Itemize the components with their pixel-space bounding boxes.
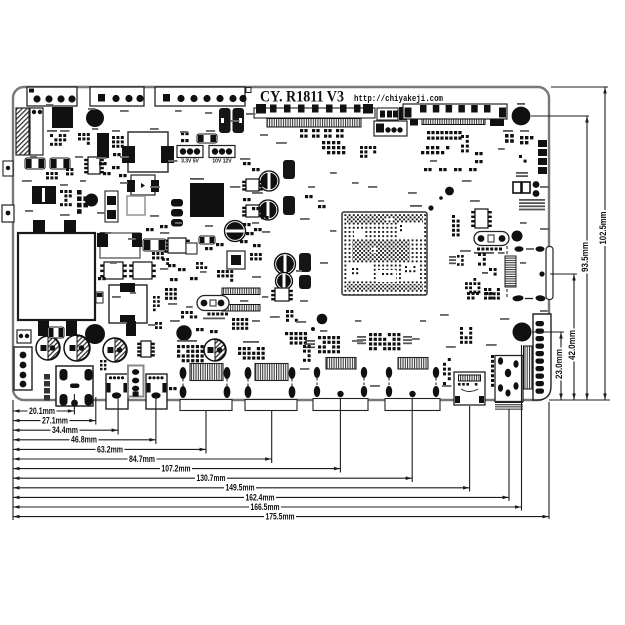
pad field A rows: [322, 141, 325, 144]
pad cluster 240s: [243, 162, 246, 165]
pad column 461,135: [461, 135, 464, 138]
connector HDMI2 HDMI port: [398, 358, 428, 370]
dimension 102.5mm vertical: [604, 87, 606, 400]
pad cluster 494,305: [467, 292, 470, 295]
dimension 23.0mm vertical: [560, 332, 562, 400]
dimension 42.0mm vertical: [573, 274, 575, 400]
capacitor block below P4: [100, 232, 110, 246]
mounting hole P6 left: [176, 325, 191, 340]
dimension 162.4mm horizontal: [13, 496, 509, 498]
dimension 175.5mm horizontal: [13, 516, 549, 518]
svg-text:63.2mm: 63.2mm: [97, 444, 123, 455]
ic U3 main power black: [190, 183, 224, 217]
ic U15 small: [186, 243, 197, 254]
connector CN1 4-pin with shell: [374, 121, 407, 136]
extension line 27.1mm: [95, 397, 97, 425]
extension line board right edge down: [548, 402, 550, 519]
pads right of mini jack 2: [169, 387, 172, 390]
pad cluster below U9: [217, 270, 220, 273]
pad column 443,358: [448, 358, 451, 361]
optocoupler U5a: [104, 262, 123, 279]
pad column 491,355: [491, 355, 494, 358]
pad cluster left of crystal: [165, 288, 168, 291]
resistor strip RN1: [222, 288, 260, 295]
header cluster 285: [285, 332, 288, 335]
transformer T2 white box with tabs: [109, 285, 147, 323]
connector tab left edge: [2, 205, 14, 222]
connector CN4 header box: [403, 104, 507, 119]
connector CN3 small 3-pad: [377, 108, 398, 120]
capacitor C1: [219, 108, 231, 133]
via hole right: [512, 231, 523, 242]
svg-text:10V 12V: 10V 12V: [212, 159, 232, 165]
box outline below diode: [127, 196, 145, 215]
pad cross cluster: [473, 278, 476, 281]
pad cluster qfn right: [250, 253, 253, 256]
extension line 46.8mm: [155, 396, 157, 444]
inductor L1 round: [225, 221, 246, 242]
capacitor tab C: [126, 321, 136, 336]
ic U10 SOIC: [88, 157, 100, 174]
capacitor tab A: [38, 321, 49, 336]
connector small 2-pin: [17, 330, 31, 343]
pad block right of comb: [490, 119, 504, 126]
svg-text:42.0mm: 42.0mm: [567, 330, 578, 360]
pads right edge 517,155: [519, 155, 522, 158]
pad pairs column 478: [478, 253, 481, 256]
mounting hole P5 center-bottom: [317, 314, 328, 325]
capacitor column 4 black: [538, 140, 547, 147]
crystal Y1 oscillator: [197, 296, 229, 311]
pad cluster under P3: [60, 190, 63, 193]
svg-text:107.2mm: 107.2mm: [162, 464, 191, 475]
leader 23mm from mounting hole P2: [532, 331, 564, 333]
ic U4 QFN: [168, 238, 186, 253]
inductor L2: [259, 171, 279, 191]
pad column left edge 100,360: [100, 360, 103, 363]
jumper JP2 10V/12V: [209, 146, 235, 158]
module box A with corner tabs: [100, 233, 140, 258]
resistor R9: [199, 236, 215, 244]
capacitor tab B: [66, 321, 77, 336]
capacitor C17: [48, 327, 64, 338]
pad column 303,345: [303, 345, 306, 348]
pad cluster 360,146: [360, 146, 363, 149]
svg-text:http://chiyakeji.com: http://chiyakeji.com: [354, 94, 443, 104]
electrolytic capacitor E4: [204, 339, 226, 361]
connector USB2 USB port: [255, 364, 288, 381]
electrolytic capacitor E3: [103, 338, 127, 362]
electrolytic capacitor E1: [36, 336, 60, 360]
pads 475,150: [475, 152, 478, 155]
pads left 104,277: [98, 277, 101, 280]
pad block left of comb: [410, 119, 418, 126]
ic U6 BGA main controller: [342, 212, 427, 295]
dimension 93.5mm vertical: [586, 116, 588, 400]
connector 4-pin vertical: [128, 366, 144, 397]
connector 24V input: [14, 347, 32, 390]
ic U7 SOIC left of inductors: [246, 179, 259, 191]
silk 24V label vertical: [44, 374, 50, 380]
capacitor C13 black: [299, 275, 311, 289]
connector power out T3: [56, 366, 93, 406]
extension line 20.1mm: [73, 394, 75, 415]
extension line board left edge down: [12, 400, 14, 520]
pad column left of P4: [77, 190, 82, 195]
diode pack D2: [131, 175, 155, 195]
silk text block LVDS: [519, 199, 545, 201]
extension line 162.4mm: [508, 409, 510, 501]
connector CN4 contact comb: [422, 119, 485, 125]
transformer T1 black block: [52, 107, 73, 128]
pads sparse mid: [305, 195, 308, 198]
inductor L3: [258, 200, 278, 220]
resistor R-pack left 1: [25, 158, 45, 169]
extension line board bottom edge right: [549, 399, 610, 401]
leader from mounting hole P1: [531, 115, 589, 117]
dimension 84.7mm horizontal: [13, 458, 272, 460]
header cluster 238: [238, 347, 241, 350]
connector P9 DC jack: [495, 356, 523, 402]
capacitor C11 black: [283, 196, 295, 215]
mounting hole P7: [85, 324, 105, 344]
pad field under CN2 comb: [300, 129, 303, 132]
ic U14 SOIC8 vertical: [141, 341, 151, 357]
connector J1 top-left 4-pin: [27, 87, 77, 106]
pads near x100 y160: [99, 162, 102, 165]
svg-text:175.5mm: 175.5mm: [266, 512, 295, 523]
pad row y168: [424, 168, 427, 171]
hatched rework area: [16, 108, 29, 155]
electrolytic capacitor E2: [64, 335, 90, 361]
pad cluster under P1: [505, 134, 509, 138]
pad cluster C-column: [457, 255, 460, 258]
silkscreen reference designator specks: [46, 104, 53, 106]
resistor R-pack left 2: [50, 158, 70, 169]
diode D1 dark block: [32, 186, 56, 204]
connector CN6 pin header right edge: [533, 314, 551, 400]
ic U11 SOIC: [275, 288, 289, 301]
via hole near BGA: [445, 187, 454, 196]
dimension 130.7mm horizontal: [13, 477, 412, 479]
connector left tall box: [30, 108, 43, 155]
resistor R8: [143, 239, 166, 251]
extension line 63.2mm: [205, 411, 207, 454]
pad column right of BGA: [452, 215, 455, 218]
connector CN2 contact comb: [267, 119, 361, 128]
pad cluster left column: [50, 134, 53, 137]
pad column 460,327: [460, 327, 463, 330]
dimension 46.8mm horizontal: [13, 439, 156, 441]
checkered pad grid: [484, 288, 487, 291]
header cluster PWR: [177, 345, 180, 348]
component dark block right of CN3: [399, 107, 407, 120]
dimension 27.1mm horizontal: [13, 420, 96, 422]
dimension 20.1mm horizontal: [13, 410, 74, 412]
extension line 107.2mm: [339, 398, 341, 473]
extension line board top edge right: [551, 86, 608, 88]
connector mini-HDMI: [454, 372, 485, 405]
pad field B rows: [427, 131, 430, 134]
mounting hole P3 top-left: [86, 109, 104, 127]
PCB board outline: [13, 87, 549, 400]
connector J2 top 4-pin: [90, 87, 144, 106]
extension line 166.5mm: [521, 345, 523, 511]
pad strip vertical comb: [524, 346, 533, 389]
connector mini jack 2: [146, 374, 167, 409]
capacitor C8 small: [96, 292, 103, 303]
capacitor C12 black: [299, 253, 311, 272]
svg-text:130.7mm: 130.7mm: [197, 473, 226, 484]
svg-text:CY. R1811 V3: CY. R1811 V3: [260, 89, 344, 106]
connector mini jack 1: [106, 374, 128, 409]
connector P9 shield ruffle: [495, 402, 523, 404]
header cluster 318: [318, 336, 321, 339]
pad cluster center-left: [152, 252, 155, 255]
resistor strip RN2: [222, 305, 260, 312]
component dual-cap right of P4: [105, 191, 118, 222]
connector CN5 LVDS output right edge: [546, 247, 553, 300]
dimension 166.5mm horizontal: [13, 506, 522, 508]
svg-text:84.7mm: 84.7mm: [129, 454, 155, 465]
dimension 63.2mm horizontal: [13, 448, 206, 450]
connector J3 top 6-pin: [155, 87, 245, 106]
svg-text:102.5mm: 102.5mm: [598, 212, 609, 245]
backlight area big square: [18, 233, 95, 320]
extension line 34.4mm: [117, 396, 119, 435]
extension line 130.7mm: [411, 398, 413, 482]
inductor L5: [276, 273, 293, 290]
jumper JP1 3.3V/5V: [177, 146, 203, 158]
ic U8 SOIC: [246, 205, 259, 217]
connector USB1 USB port: [190, 364, 223, 381]
svg-text:46.8mm: 46.8mm: [71, 435, 97, 446]
pad cluster 232,318: [232, 318, 235, 321]
component dual pads right top: [513, 182, 521, 193]
pad pair com: [489, 268, 492, 271]
dimension 107.2mm horizontal: [13, 468, 340, 470]
mounting hole P2 bottom-right: [513, 323, 532, 342]
regulator block dark: [97, 133, 109, 158]
header cluster 369: [369, 333, 372, 336]
dimension 34.4mm horizontal: [13, 429, 118, 431]
dimension 149.5mm horizontal: [13, 487, 470, 489]
capacitor C2: [233, 108, 245, 133]
module U2 DC-DC with side tabs: [128, 132, 168, 172]
extension line 84.7mm: [271, 411, 273, 463]
svg-text:3.3V 5V: 3.3V 5V: [181, 159, 199, 165]
mounting hole P4 left-center: [85, 194, 98, 207]
ic U9 QFN with black core: [227, 251, 245, 269]
optocoupler U5b: [133, 262, 152, 279]
crystal Y2 oscillator: [474, 232, 509, 246]
ic U13 SOIC with pins: [475, 209, 488, 228]
pads center-left enrich: [196, 262, 199, 265]
resistor R5: [197, 134, 217, 143]
connector HDMI1 HDMI port: [326, 358, 356, 370]
svg-text:93.5mm: 93.5mm: [580, 242, 591, 272]
mounting hole P1 top-right: [512, 107, 531, 126]
connector CN2 40-pin header bar: [254, 108, 375, 118]
pads under crystal: [207, 313, 210, 316]
pad cluster mid-left: [46, 172, 49, 175]
inductor L4: [275, 254, 296, 275]
pads under crystal Y2: [477, 248, 480, 251]
pad cluster 286,310: [286, 310, 289, 313]
pad cluster 520,136: [520, 136, 523, 139]
svg-text:23.0mm: 23.0mm: [554, 349, 565, 379]
extension line 149.5mm: [469, 406, 471, 492]
pad column 153,296: [153, 296, 156, 299]
leader 42mm from CN5: [550, 273, 577, 275]
capacitor C10 black: [283, 160, 295, 179]
